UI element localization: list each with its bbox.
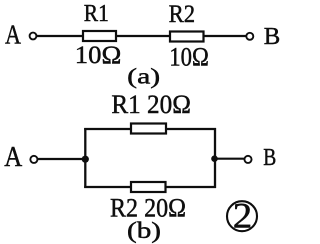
wire A to left junction (circuit b) — [38, 158, 86, 160]
resistor R2 (circuit b) — [131, 182, 166, 192]
svg-text:R2: R2 — [169, 1, 196, 28]
terminal B (circuit a) — [246, 33, 253, 40]
wire right vertical (circuit b) — [214, 128, 216, 188]
wire left vertical (circuit b) — [84, 128, 86, 188]
resistor R2 (circuit a) — [170, 32, 204, 42]
svg-text:(a): (a) — [127, 64, 160, 89]
wire top-left branch (circuit b) — [84, 128, 131, 130]
terminal A (circuit a) — [30, 33, 37, 40]
resistor R1 (circuit b) — [131, 124, 166, 134]
wire bottom-left branch (circuit b) — [84, 186, 131, 188]
junction right (circuit b) — [211, 155, 218, 162]
wire R1 to R2 (circuit a) — [116, 35, 170, 37]
svg-text:2: 2 — [233, 196, 253, 236]
svg-text:10Ω: 10Ω — [75, 42, 122, 69]
junction left (circuit b) — [82, 156, 89, 163]
svg-text:R1 20Ω: R1 20Ω — [111, 90, 190, 119]
svg-text:10Ω: 10Ω — [169, 42, 209, 71]
svg-text:A: A — [5, 19, 21, 49]
wire bottom-right branch (circuit b) — [166, 186, 217, 188]
svg-text:B: B — [264, 23, 281, 50]
wire A to R1 (circuit a) — [37, 35, 83, 37]
resistor R1 (circuit a) — [83, 31, 116, 41]
circled number 2 badge circle — [227, 201, 257, 231]
wire R2 to B (circuit a) — [204, 35, 247, 37]
terminal A (circuit b) — [30, 156, 37, 163]
svg-text:R1: R1 — [84, 1, 109, 27]
svg-text:B: B — [263, 144, 276, 171]
svg-text:(b): (b) — [127, 218, 161, 244]
terminal B (circuit b) — [244, 156, 251, 163]
svg-text:A: A — [4, 141, 22, 173]
wire top-right branch (circuit b) — [166, 128, 216, 130]
wire right junction to B (circuit b) — [215, 158, 244, 160]
